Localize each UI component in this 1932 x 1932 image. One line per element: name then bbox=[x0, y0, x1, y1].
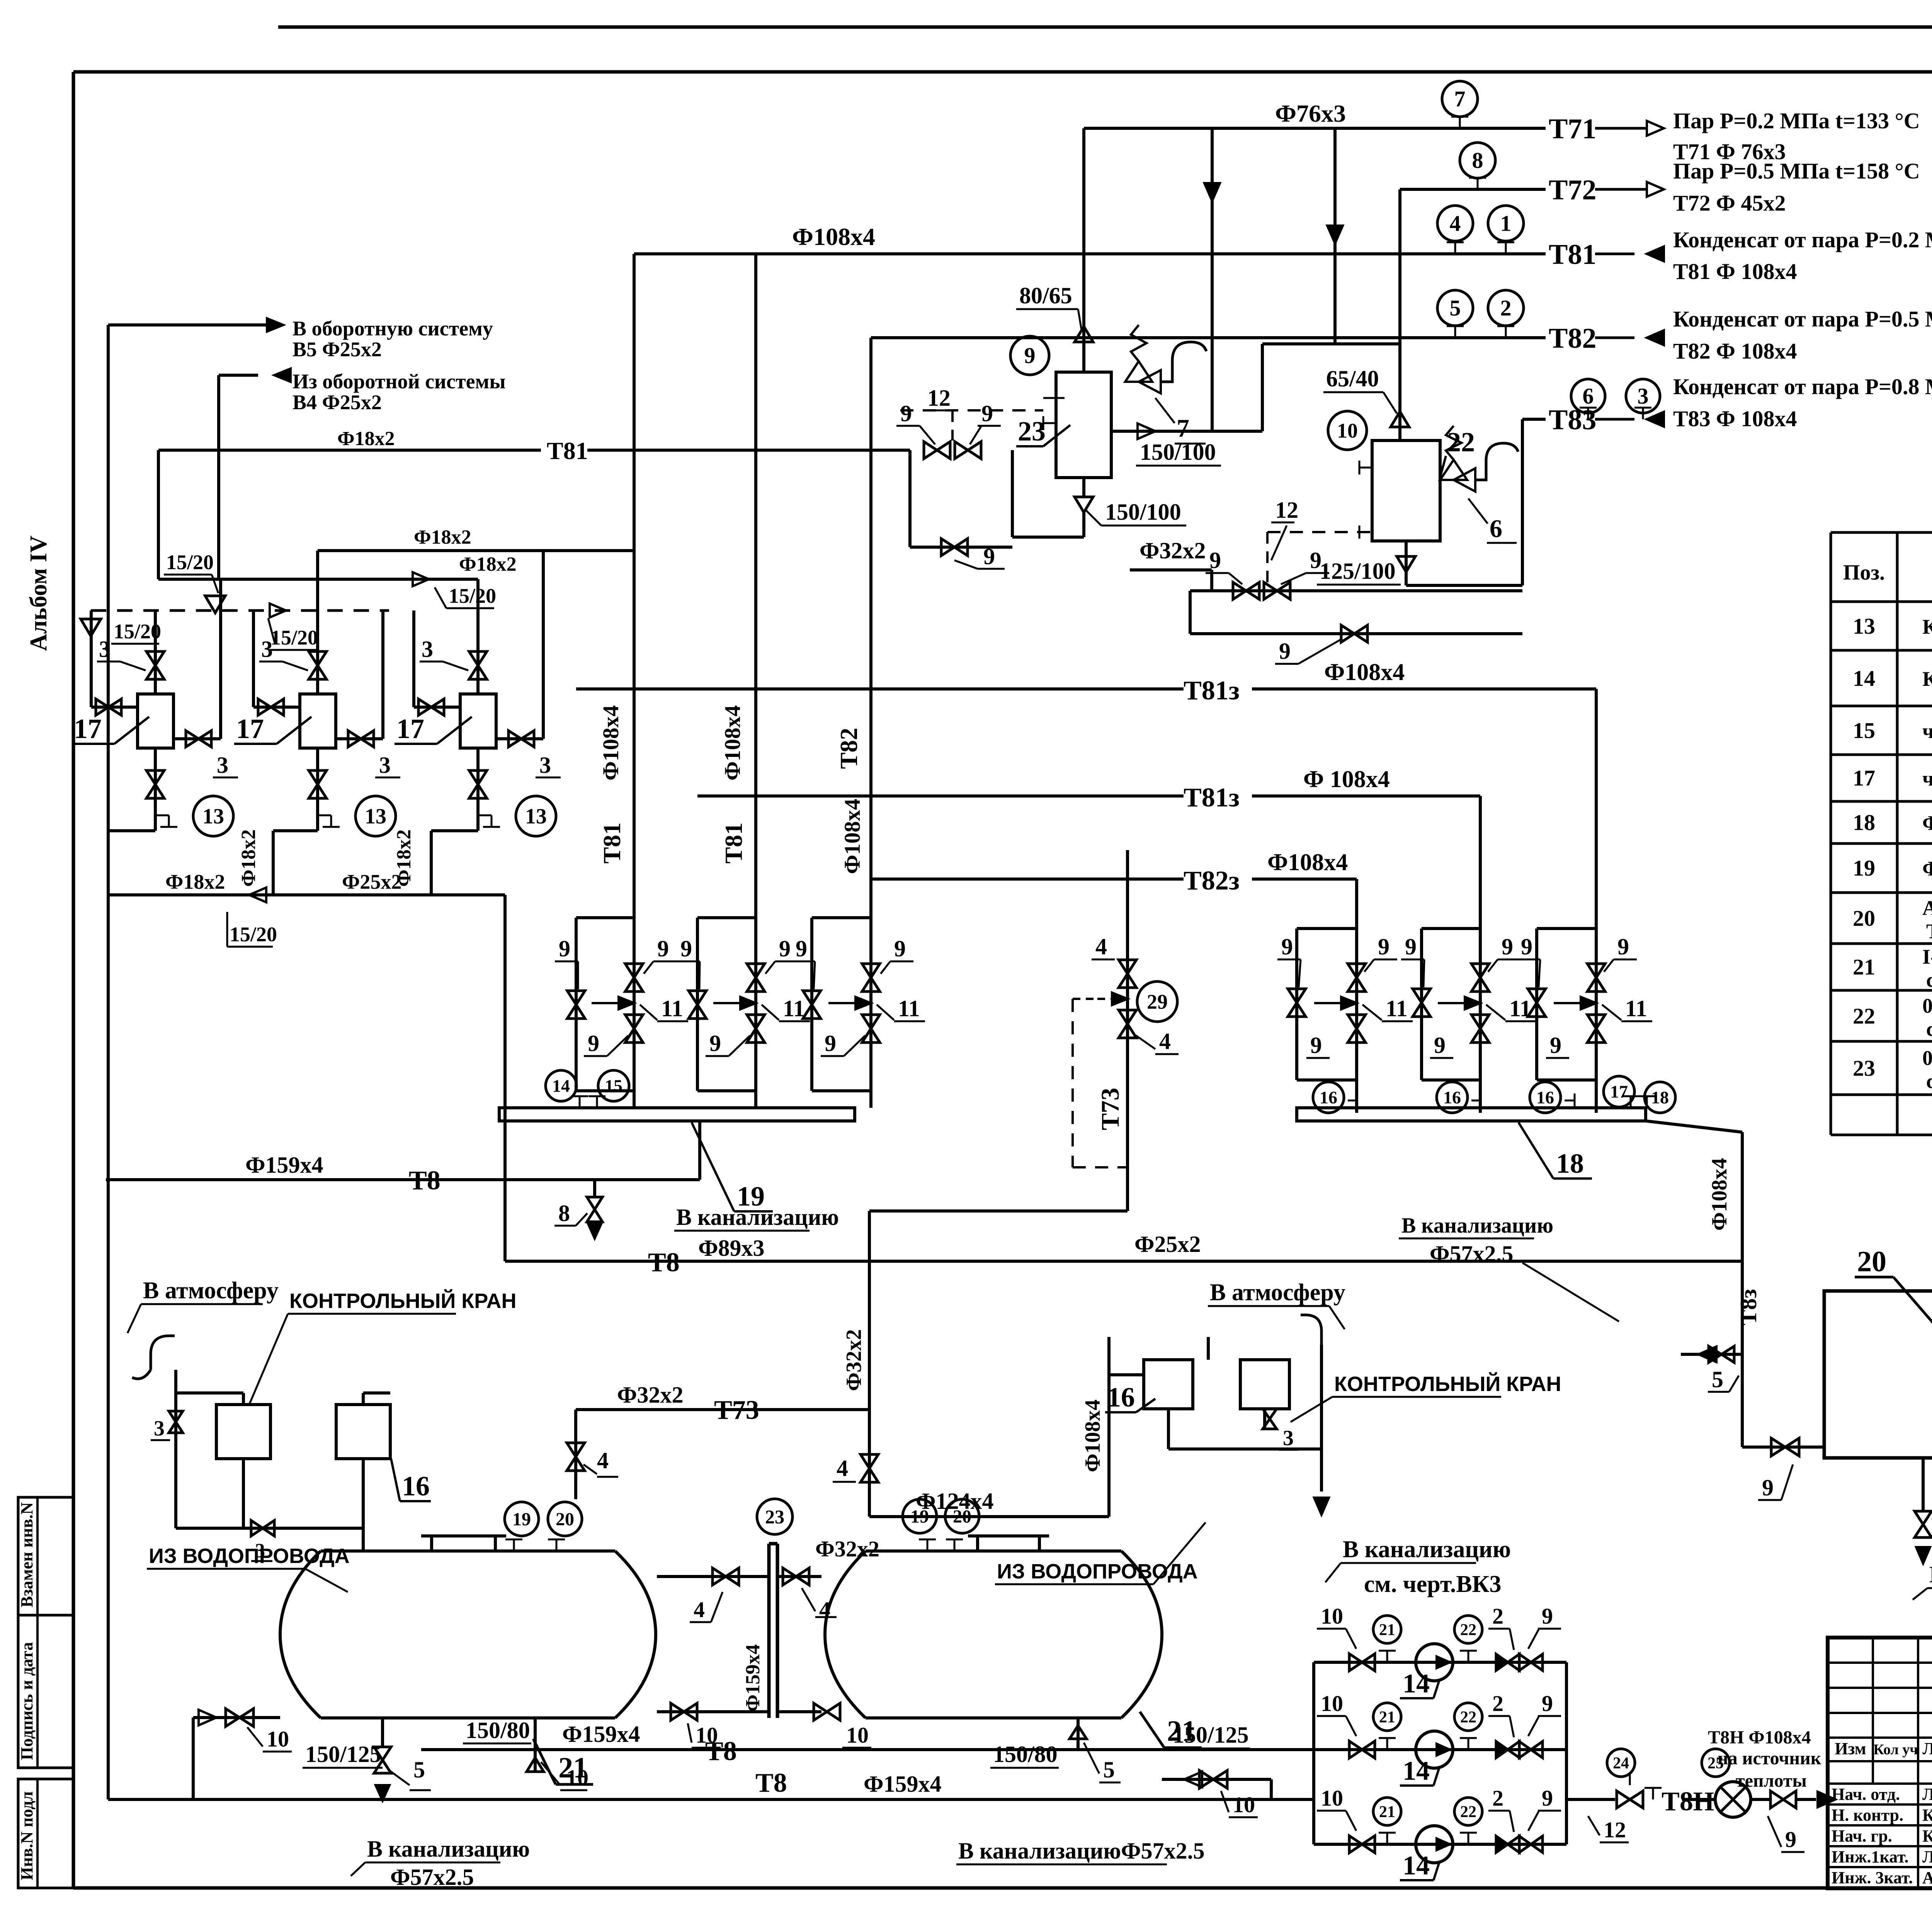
svg-text:ИЗ ВОДОПРОВОДА: ИЗ ВОДОПРОВОДА bbox=[149, 1544, 350, 1568]
label 12 dashed control tank22 bbox=[1267, 531, 1372, 533]
svg-text:19: 19 bbox=[910, 1506, 929, 1527]
svg-text:3: 3 bbox=[1638, 384, 1649, 409]
svg-text:9: 9 bbox=[1542, 1786, 1553, 1811]
svg-text:Нач. отд.: Нач. отд. bbox=[1832, 1785, 1900, 1804]
svg-text:ТД сер. 5.904-43 в 0,1: ТД сер. 5.904-43 в 0,1 bbox=[1926, 920, 1932, 943]
tank2 right connection down bbox=[1270, 1779, 1273, 1799]
valve 3 top bbox=[469, 651, 487, 665]
svg-text:Т72 Ф 45x2: Т72 Ф 45x2 bbox=[1673, 190, 1786, 216]
circle 22 bbox=[1454, 1798, 1482, 1825]
svg-text:13: 13 bbox=[365, 804, 386, 828]
svg-text:2: 2 bbox=[1492, 1786, 1503, 1811]
svg-text:9: 9 bbox=[1434, 1032, 1446, 1058]
svg-text:Инж. 3кат.: Инж. 3кат. bbox=[1832, 1868, 1913, 1887]
svg-text:5: 5 bbox=[413, 1757, 425, 1782]
pipe T73 horizontal bbox=[576, 1408, 869, 1411]
pump 14 bbox=[1416, 1826, 1453, 1863]
svg-text:14: 14 bbox=[552, 1076, 570, 1096]
svg-text:В канализацию: В канализацию bbox=[367, 1836, 530, 1862]
svg-text:9: 9 bbox=[1550, 1032, 1561, 1058]
svg-text:11: 11 bbox=[783, 996, 805, 1021]
main valve stack bbox=[1471, 964, 1489, 978]
circle 21 bbox=[1373, 1798, 1401, 1825]
bypass loop bbox=[812, 916, 871, 919]
tank23 drain 150/100 bbox=[1075, 497, 1093, 512]
svg-text:3: 3 bbox=[99, 636, 111, 662]
main valve stack 9-11-9 bbox=[862, 964, 880, 978]
valves 4 equalizer top bbox=[657, 1575, 769, 1578]
svg-text:9: 9 bbox=[680, 936, 692, 961]
tank 22 expansion bbox=[1372, 440, 1440, 541]
svg-text:19: 19 bbox=[512, 1509, 531, 1529]
equalizer pipe between tanks bbox=[767, 1544, 771, 1718]
svg-text:18: 18 bbox=[1651, 1088, 1669, 1107]
svg-text:14: 14 bbox=[1853, 666, 1875, 691]
bypass with valve 9 bbox=[908, 450, 912, 547]
instrument circle 3 bbox=[1626, 379, 1660, 413]
instrument circle 13 bbox=[330, 815, 332, 827]
collector 18 bar bbox=[1297, 1108, 1646, 1121]
pipe Т8 collecting line y4528 bbox=[421, 1748, 1314, 1751]
svg-text:21: 21 bbox=[558, 1752, 588, 1784]
pipe Т8 Ф159x4 upper bbox=[106, 1178, 700, 1181]
wire Ф32x2 vertical bbox=[868, 1211, 871, 1410]
sampler unit 17 #2 box bbox=[300, 694, 336, 748]
dashed control to valve 29 bbox=[1073, 998, 1097, 1000]
bypass valve 9 bbox=[803, 991, 821, 1005]
svg-text:21: 21 bbox=[1379, 1621, 1395, 1639]
svg-text:4: 4 bbox=[819, 1597, 830, 1622]
svg-text:Т83 Ф 108x4: Т83 Ф 108x4 bbox=[1673, 406, 1797, 431]
collector 19 bar bbox=[499, 1108, 855, 1121]
bypass loop bbox=[576, 916, 634, 919]
circle 23 equalizer bbox=[757, 1499, 793, 1534]
pipe T82з bbox=[871, 878, 1184, 881]
svg-text:Нач. гр.: Нач. гр. bbox=[1832, 1827, 1892, 1845]
valve 3 unit A bbox=[169, 1411, 183, 1422]
valve 9 bbox=[1519, 1654, 1531, 1670]
svg-text:17: 17 bbox=[236, 713, 264, 744]
svg-text:сер. 903-3-04: сер. 903-3-04 bbox=[1926, 968, 1932, 992]
svg-text:21: 21 bbox=[1167, 1715, 1196, 1747]
wire riser x3511 bbox=[1355, 879, 1358, 1113]
svg-text:Ф108x4: Ф108x4 bbox=[598, 705, 623, 781]
svg-text:Ф18x2: Ф18x2 bbox=[459, 553, 517, 575]
svg-text:Ф89x3: Ф89x3 bbox=[698, 1235, 765, 1261]
wire drain bbox=[316, 815, 319, 831]
svg-text:Т72: Т72 bbox=[1549, 174, 1596, 206]
relief 65/40 bbox=[1391, 412, 1409, 427]
pump 14 bbox=[1416, 1644, 1453, 1681]
valve 3 left inlet bbox=[253, 706, 300, 709]
svg-text:Т83: Т83 bbox=[1549, 404, 1596, 436]
svg-text:4: 4 bbox=[1095, 934, 1107, 959]
svg-text:3: 3 bbox=[539, 752, 551, 778]
spec table grid bbox=[1831, 531, 1932, 534]
main valve stack bbox=[1348, 964, 1366, 978]
svg-text:Ф219x5 L=2000мм: Ф219x5 L=2000мм bbox=[1922, 857, 1932, 880]
svg-text:Инв.N подл: Инв.N подл bbox=[17, 1791, 36, 1880]
svg-text:Ф18x2: Ф18x2 bbox=[337, 428, 395, 450]
valve 9 bbox=[1519, 1836, 1531, 1852]
title block frame bbox=[1828, 1638, 1932, 1888]
unit A to tank1 bbox=[362, 1393, 365, 1405]
svg-text:16: 16 bbox=[1107, 1382, 1135, 1413]
valve 9 outlet bbox=[1770, 1791, 1783, 1808]
svg-text:КОНТРОЛЬНЫЙ КРАН: КОНТРОЛЬНЫЙ КРАН bbox=[1334, 1372, 1561, 1396]
svg-text:16: 16 bbox=[1536, 1088, 1554, 1107]
arrow 15/20 on dashed bbox=[270, 604, 286, 617]
circle 21 bbox=[1373, 1703, 1401, 1731]
flow device 25 bbox=[1715, 1782, 1751, 1817]
svg-text:Подпись и дата: Подпись и дата bbox=[17, 1642, 36, 1760]
svg-text:10: 10 bbox=[1321, 1691, 1343, 1716]
svg-text:14: 14 bbox=[1403, 1756, 1430, 1786]
svg-text:9: 9 bbox=[1310, 548, 1321, 573]
tank 20 drain valve 5 bbox=[1922, 1458, 1925, 1512]
svg-text:17: 17 bbox=[1610, 1082, 1628, 1102]
pipe from circulation system B4 bbox=[219, 374, 258, 377]
svg-text:Т82з: Т82з bbox=[1184, 866, 1240, 896]
unit B piping bbox=[1109, 1373, 1144, 1376]
main valve stack 9-11-9 bbox=[625, 964, 643, 978]
svg-text:11: 11 bbox=[898, 996, 920, 1021]
svg-text:Ф32x2: Ф32x2 bbox=[1139, 538, 1206, 563]
pipe T81з upper bbox=[576, 687, 1184, 690]
svg-text:В оборотную систему: В оборотную систему bbox=[293, 317, 493, 340]
svg-text:Ф18x2: Ф18x2 bbox=[165, 870, 225, 893]
wire drain bbox=[476, 815, 480, 831]
wire T73 riser bbox=[1126, 850, 1129, 1211]
wire Ф76x3 drop x3455 bbox=[1333, 128, 1337, 344]
svg-text:21: 21 bbox=[1379, 1803, 1395, 1821]
unit B boxes bbox=[1144, 1360, 1193, 1409]
svg-text:Т8з: Т8з bbox=[1736, 1289, 1761, 1325]
pipe Ф18x2 line D with arrow bbox=[158, 578, 478, 581]
manifold19 riser 1 bbox=[633, 254, 636, 1108]
svg-text:9: 9 bbox=[1785, 1827, 1796, 1852]
svg-text:10: 10 bbox=[1321, 1604, 1343, 1629]
pipe T72 steam line bbox=[1400, 188, 1546, 191]
valve 3 top bbox=[146, 651, 164, 665]
svg-text:24: 24 bbox=[1613, 1754, 1629, 1772]
wire B4 vertical feed bbox=[217, 375, 220, 579]
svg-text:6: 6 bbox=[1583, 384, 1594, 409]
tick tank22 left bbox=[1359, 467, 1372, 469]
svg-text:Т8: Т8 bbox=[409, 1166, 440, 1196]
tank1 circles 19 20 bbox=[505, 1502, 539, 1536]
svg-text:15/20: 15/20 bbox=[449, 584, 496, 607]
valve 3 unit B bbox=[1263, 1409, 1266, 1430]
unit B vent hook bbox=[1301, 1315, 1321, 1345]
svg-text:11: 11 bbox=[661, 996, 683, 1021]
svg-text:9: 9 bbox=[1542, 1604, 1553, 1629]
svg-text:5: 5 bbox=[1103, 1757, 1115, 1782]
svg-text:9: 9 bbox=[559, 936, 570, 961]
wire drains to collection bbox=[108, 829, 155, 832]
svg-text:12: 12 bbox=[1604, 1817, 1626, 1842]
svg-text:В канализацию: В канализацию bbox=[1929, 1562, 1932, 1587]
svg-text:Кс-12-50: Кс-12-50 bbox=[1922, 615, 1932, 638]
svg-text:150/80: 150/80 bbox=[993, 1742, 1058, 1767]
svg-text:21: 21 bbox=[1379, 1708, 1395, 1726]
valve 10 bbox=[1349, 1741, 1362, 1758]
svg-text:11: 11 bbox=[1386, 996, 1408, 1021]
wire riser bbox=[154, 611, 157, 694]
svg-text:21: 21 bbox=[1853, 954, 1875, 980]
svg-text:Пар Р=0.2 МПа t=133 °С: Пар Р=0.2 МПа t=133 °С bbox=[1673, 108, 1920, 133]
pump branch 3 bbox=[1314, 1843, 1566, 1846]
pipe T81 condensate line bbox=[634, 252, 1546, 255]
svg-text:Пар Р=0.5 МПа t=158 °С: Пар Р=0.5 МПа t=158 °С bbox=[1673, 158, 1920, 184]
pipe Ф18x2 line C bbox=[318, 549, 634, 552]
svg-text:8: 8 bbox=[558, 1201, 570, 1226]
tick tank23 left bbox=[1043, 422, 1056, 424]
svg-text:Т81: Т81 bbox=[1549, 239, 1596, 270]
valve 24 bbox=[1617, 1791, 1630, 1808]
collector 18 diagonal to riser bbox=[1646, 1121, 1742, 1132]
svg-text:3: 3 bbox=[379, 752, 391, 778]
svg-text:9: 9 bbox=[825, 1031, 836, 1056]
manifold18 group 2 bypass bbox=[1422, 927, 1480, 930]
tank23 outlet 150/100 bbox=[1111, 430, 1262, 433]
valve 3 bottom bbox=[476, 748, 480, 815]
wire riser x3831 bbox=[1479, 796, 1482, 1113]
svg-text:Ф159x4: Ф159x4 bbox=[562, 1721, 640, 1747]
valve 3 right outlet bbox=[173, 737, 221, 740]
svg-text:Ф108x4: Ф108x4 bbox=[1081, 1400, 1105, 1472]
svg-text:Ф108x4: Ф108x4 bbox=[1708, 1158, 1731, 1231]
sampler unit 17 #3 box bbox=[460, 694, 496, 748]
svg-text:Ф159x4: Ф159x4 bbox=[742, 1644, 764, 1712]
svg-text:150/80: 150/80 bbox=[466, 1718, 530, 1743]
unit A piping bbox=[174, 1370, 177, 1528]
svg-text:9: 9 bbox=[1542, 1691, 1553, 1716]
svg-text:15/20: 15/20 bbox=[166, 551, 214, 574]
svg-text:Изм: Изм bbox=[1835, 1739, 1866, 1758]
svg-text:12: 12 bbox=[927, 385, 951, 411]
svg-text:9: 9 bbox=[1378, 934, 1389, 959]
svg-text:0.500-Т36.03: 0.500-Т36.03 bbox=[1922, 1046, 1932, 1070]
svg-text:150/125: 150/125 bbox=[305, 1742, 381, 1767]
valve group 9-12-9 on T81 bbox=[924, 442, 937, 459]
svg-text:Лысикова: Лысикова bbox=[1922, 1847, 1932, 1866]
svg-text:2: 2 bbox=[1492, 1691, 1503, 1716]
manifold18 group 3 bypass bbox=[1537, 927, 1596, 930]
svg-text:18: 18 bbox=[1556, 1148, 1584, 1179]
valve 5 branch left bbox=[1681, 1353, 1742, 1356]
wire drain bbox=[154, 815, 157, 831]
pipe Ф124x4 bbox=[869, 1515, 1109, 1518]
svg-text:9: 9 bbox=[1762, 1475, 1774, 1500]
svg-text:Т73: Т73 bbox=[714, 1395, 759, 1425]
pipe T81з lower bbox=[697, 794, 1184, 798]
check valve 2 bbox=[1496, 1836, 1508, 1852]
svg-text:Ф 108x4: Ф 108x4 bbox=[1303, 766, 1390, 793]
svg-text:Т71: Т71 bbox=[1549, 113, 1596, 145]
margin box Инв.N подл bbox=[18, 1779, 73, 1888]
circle 22 bbox=[1454, 1703, 1482, 1731]
svg-text:3: 3 bbox=[217, 752, 228, 778]
svg-text:В5 Ф25x2: В5 Ф25x2 bbox=[293, 338, 382, 361]
svg-text:9: 9 bbox=[900, 401, 912, 426]
relief valve 6 with hook bbox=[1446, 426, 1461, 460]
svg-text:22: 22 bbox=[1460, 1803, 1476, 1821]
svg-text:Поз.: Поз. bbox=[1843, 561, 1885, 585]
svg-text:I-3-Т37.03: I-3-Т37.03 bbox=[1922, 945, 1932, 968]
svg-text:16: 16 bbox=[402, 1471, 430, 1502]
svg-text:Т81з: Т81з bbox=[1184, 676, 1240, 706]
svg-text:Конденсат от пара Р=0.5 МПа t=: Конденсат от пара Р=0.5 МПа t=158 °С bbox=[1673, 306, 1932, 332]
valve 4 right bbox=[868, 1410, 871, 1499]
svg-text:Т8: Т8 bbox=[648, 1248, 680, 1277]
instrument circle 6 bbox=[1571, 379, 1605, 413]
svg-text:10: 10 bbox=[1233, 1792, 1255, 1817]
svg-text:0.250-Т36.02: 0.250-Т36.02 bbox=[1922, 994, 1932, 1017]
svg-text:Ф108x4: Ф108x4 bbox=[720, 705, 745, 781]
svg-text:13: 13 bbox=[1853, 614, 1875, 639]
wire B5 long vertical down left side bbox=[107, 325, 110, 1799]
wire riser x4131 bbox=[1595, 689, 1598, 1113]
pipe T83 condensate line bbox=[1522, 418, 1546, 421]
bypass valve 9 bbox=[689, 991, 706, 1005]
svg-text:3: 3 bbox=[154, 1417, 165, 1440]
svg-text:2: 2 bbox=[1492, 1604, 1503, 1629]
valves 10 lower crossover bbox=[657, 1710, 769, 1713]
tank 20 bbox=[1824, 1291, 1932, 1458]
valve 4 left bbox=[574, 1410, 577, 1499]
svg-text:10: 10 bbox=[846, 1723, 869, 1748]
wire F drop to T8 bbox=[503, 895, 507, 1180]
svg-text:Т81: Т81 bbox=[598, 822, 626, 864]
svg-text:14: 14 bbox=[1403, 1669, 1430, 1699]
pump branch 2 bbox=[1314, 1748, 1566, 1751]
svg-text:Конденсат от пара Р=0.2 МПа t=: Конденсат от пара Р=0.2 МПа t=133 °С bbox=[1673, 227, 1932, 252]
instrument circle 29 bbox=[1137, 981, 1177, 1022]
svg-text:Ф108x4: Ф108x4 bbox=[792, 223, 875, 250]
pipe y3134 bbox=[869, 1209, 1128, 1213]
check valve 2 bbox=[1496, 1742, 1508, 1758]
instrument circle 10 bbox=[1328, 411, 1367, 450]
instrument circle 9 bbox=[1010, 336, 1049, 375]
svg-text:8: 8 bbox=[1472, 148, 1483, 173]
funnel 15/20 mid bbox=[205, 596, 225, 613]
svg-text:Т81: Т81 bbox=[720, 822, 747, 864]
svg-text:10: 10 bbox=[1321, 1786, 1343, 1811]
svg-text:9: 9 bbox=[588, 1031, 599, 1056]
valve 10 bbox=[1349, 1654, 1362, 1671]
wire riser from T71 bbox=[1082, 128, 1085, 372]
circle 21 bbox=[1373, 1616, 1401, 1643]
svg-text:9: 9 bbox=[981, 401, 993, 426]
valve 3 right outlet bbox=[496, 737, 543, 740]
svg-text:9: 9 bbox=[1502, 934, 1513, 959]
valve 3 left inlet bbox=[91, 706, 138, 709]
svg-text:150/100: 150/100 bbox=[1105, 499, 1181, 525]
main valve stack bbox=[1587, 964, 1605, 978]
svg-text:Ф32x2: Ф32x2 bbox=[842, 1329, 866, 1391]
suction header bbox=[1312, 1662, 1315, 1844]
svg-text:16: 16 bbox=[1443, 1088, 1461, 1107]
svg-text:Т82 Ф 108x4: Т82 Ф 108x4 bbox=[1673, 338, 1797, 364]
valve 3 right outlet bbox=[336, 737, 383, 740]
svg-text:9: 9 bbox=[796, 936, 807, 961]
svg-text:Т73: Т73 bbox=[1096, 1088, 1124, 1130]
sheet outer top border bbox=[278, 26, 1932, 29]
valve 8 drain bbox=[593, 1180, 596, 1196]
discharge header bbox=[1565, 1662, 1568, 1844]
svg-text:7: 7 bbox=[1177, 414, 1189, 442]
svg-text:19: 19 bbox=[1853, 855, 1875, 881]
pipe to circulation system B5 bbox=[108, 323, 267, 327]
svg-text:Ф18x2: Ф18x2 bbox=[238, 829, 260, 887]
svg-text:9: 9 bbox=[709, 1031, 721, 1056]
svg-text:Взамен инв.N: Взамен инв.N bbox=[17, 1502, 36, 1607]
unit A box 2 bbox=[336, 1405, 390, 1459]
pipe Т8 lower (Ф25x2) bbox=[503, 1180, 507, 1261]
svg-text:20: 20 bbox=[953, 1506, 971, 1527]
pipe T81 sampler header bbox=[158, 449, 541, 452]
bypass valve 9 below bbox=[1189, 591, 1192, 634]
wire T81 to drain elbow bbox=[1011, 450, 1014, 537]
wire riser T72 to tank22 bbox=[1398, 189, 1401, 440]
unit A bottom piping bbox=[242, 1459, 245, 1528]
svg-text:сер. 903-3-05: сер. 903-3-05 bbox=[1926, 1017, 1932, 1041]
svg-text:9: 9 bbox=[657, 936, 669, 961]
svg-text:Н. контр.: Н. контр. bbox=[1832, 1806, 1903, 1825]
svg-text:20: 20 bbox=[556, 1509, 574, 1529]
svg-text:9: 9 bbox=[1521, 934, 1532, 959]
svg-text:9: 9 bbox=[1281, 934, 1293, 959]
svg-text:Конденсат от пара Р=0.8 МПа t: Конденсат от пара Р=0.8 МПа t=175 °С bbox=[1673, 374, 1932, 399]
svg-text:10: 10 bbox=[1337, 419, 1358, 442]
sampler unit 17 #1 box bbox=[138, 694, 173, 748]
svg-text:Ф159x4: Ф159x4 bbox=[245, 1152, 323, 1178]
wire Ф76x3 drop x3137 bbox=[1211, 128, 1214, 431]
circle 22 bbox=[1454, 1616, 1482, 1643]
svg-text:Ф25x2: Ф25x2 bbox=[1134, 1231, 1201, 1257]
svg-text:9: 9 bbox=[1279, 638, 1291, 664]
dashed line E bbox=[91, 609, 389, 612]
svg-text:Ф57x2.5: Ф57x2.5 bbox=[1430, 1241, 1514, 1267]
svg-text:3: 3 bbox=[1283, 1426, 1294, 1450]
svg-text:Ф25x2: Ф25x2 bbox=[342, 870, 401, 893]
svg-text:Ф108x4: Ф108x4 bbox=[1324, 659, 1405, 685]
tank22 drain 125/100 bbox=[1405, 541, 1408, 585]
svg-text:17: 17 bbox=[396, 713, 424, 744]
svg-text:7: 7 bbox=[1454, 87, 1466, 112]
svg-text:5: 5 bbox=[1450, 296, 1461, 321]
svg-text:16: 16 bbox=[1320, 1088, 1337, 1107]
svg-text:14: 14 bbox=[1403, 1851, 1430, 1881]
svg-text:Ф76x3: Ф76x3 bbox=[1275, 100, 1346, 127]
svg-text:29: 29 bbox=[1147, 990, 1168, 1013]
svg-text:4: 4 bbox=[597, 1448, 609, 1473]
svg-text:черт. ТХ3Н-2: черт. ТХ3Н-2 bbox=[1922, 719, 1932, 743]
tank 21 #1 condensate bbox=[321, 1549, 615, 1553]
svg-text:1: 1 bbox=[1500, 211, 1512, 236]
instrument circle 5 bbox=[1437, 290, 1473, 326]
svg-text:Ф159x4: Ф159x4 bbox=[864, 1771, 942, 1797]
margin box Подпись и дата bbox=[18, 1615, 73, 1768]
svg-text:12: 12 bbox=[1275, 497, 1298, 523]
relief valve 7 with hook bbox=[1131, 325, 1146, 361]
tank 21 #2 condensate bbox=[866, 1549, 1121, 1553]
instrument circle 13 bbox=[168, 815, 170, 827]
svg-text:18: 18 bbox=[1853, 810, 1875, 835]
pump 14 bbox=[1416, 1731, 1453, 1768]
tank2 circles 19 20 bbox=[903, 1499, 937, 1533]
